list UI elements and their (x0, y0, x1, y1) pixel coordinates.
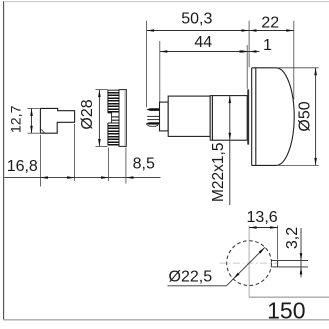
title block line (249, 296, 329, 298)
ext 22 left / 50,3 right (248, 21, 250, 67)
nut notch (107, 113, 112, 123)
dim 12,7 extension top (28, 107, 40, 109)
dim 12,7 line (31, 108, 33, 133)
frame top border (4, 1, 329, 3)
washer (210, 96, 212, 141)
svg-text:44: 44 (194, 34, 212, 51)
dim line 44 (160, 51, 249, 53)
bracket outline (40, 108, 74, 133)
bracket inner diagonal (41, 129, 45, 133)
ext 50,3 left (146, 21, 148, 108)
lamp block (168, 96, 210, 136)
Ø22,5 arrow upper (259, 247, 265, 253)
svg-text:1: 1 (263, 37, 272, 54)
svg-text:150: 150 (267, 298, 305, 324)
svg-text:Ø22,5: Ø22,5 (169, 269, 213, 286)
Ø22,5 arrow lower (233, 273, 239, 279)
dim 3,2 arrow top outside (300, 253, 303, 261)
Ø22,5 diagonal (226, 247, 265, 285)
notch inner lines (112, 116, 119, 118)
arrow 50,3 right (242, 29, 250, 32)
Ø50 arrow down (314, 158, 317, 166)
Ø50 arrow up (314, 68, 317, 76)
notch right edge (277, 261, 279, 267)
dim 16,8 ext right (74, 124, 76, 181)
Ø50 ext top (278, 67, 319, 69)
dim 13,6 ext right (277, 226, 279, 260)
dim Ø28 ext top (96, 89, 108, 91)
svg-text:8,5: 8,5 (133, 156, 155, 173)
rear neck (160, 102, 169, 131)
svg-text:22: 22 (261, 14, 279, 31)
dim 3,2 line (300, 228, 302, 277)
dim 16,8 + 8,5 shared line (4, 177, 160, 179)
nut collar (119, 90, 126, 147)
Ø50 ext bottom (278, 164, 319, 166)
frame bottom border (3, 319, 329, 321)
dim Ø28 ext bottom (96, 145, 108, 147)
dim 13,6 arrow left (249, 226, 257, 229)
dim 8,5 arrow left outside (101, 176, 109, 179)
M22 arrow up (229, 96, 232, 104)
svg-text:3,2: 3,2 (284, 227, 301, 249)
dim line 50,3 / 22 (147, 30, 294, 32)
dim 8,5 arrow right outside (126, 176, 133, 179)
arrow 44 right (242, 50, 250, 53)
terminal pins (146, 108, 159, 111)
frame left border (3, 1, 5, 319)
M22 arrow down (229, 133, 232, 141)
knurl body (108, 90, 119, 145)
svg-text:Ø50: Ø50 (297, 101, 314, 131)
dim 8,5 ext left (108, 148, 110, 182)
ext 1 left (246, 45, 248, 89)
hole circle dashed (227, 241, 272, 286)
thread cylinder (212, 96, 247, 141)
svg-text:50,3: 50,3 (181, 11, 212, 28)
dim 12,7 arrow down (30, 126, 33, 134)
head dome (252, 68, 295, 166)
dim line 1 right stub (249, 51, 260, 53)
M22 dim line (229, 96, 231, 205)
dim 8,5 ext right (125, 148, 127, 184)
arrow 22 left (249, 29, 257, 32)
dim 13,6 line (249, 227, 278, 229)
svg-text:16,8: 16,8 (7, 158, 38, 175)
collar shading (124, 90, 126, 146)
svg-text:13,6: 13,6 (247, 209, 278, 226)
arrow 22 right (286, 29, 294, 32)
head back line (251, 68, 253, 166)
knurl stripes (108, 92, 119, 146)
head rim line (255, 68, 257, 166)
ext 22 right (293, 21, 295, 100)
dim Ø28 arrow down (98, 139, 101, 147)
Ø50 dim line (315, 68, 317, 166)
svg-text:Ø28: Ø28 (79, 99, 96, 129)
ext 44 left (159, 41, 161, 102)
notch bottom edge / 3,2 ext bottom (271, 266, 308, 268)
dim Ø28 arrow up (98, 90, 101, 98)
horizontal centerline (220, 262, 278, 264)
arrow 1 left outside (240, 50, 248, 53)
notch top edge / 3,2 ext top (271, 260, 308, 262)
Ø22,5 leader horizontal (168, 285, 227, 287)
arrow 1 right outside (249, 50, 257, 53)
dim 16,8 ext left (39, 135, 41, 187)
arrow 44 left (160, 50, 168, 53)
arrow 50,3 left (147, 29, 155, 32)
terminal hook (146, 124, 158, 126)
dim 12,7 extension bottom (28, 132, 40, 134)
dim 16,8 arrow left (40, 176, 48, 179)
dim 3,2 arrow bottom outside (300, 267, 303, 275)
dim Ø28 line (98, 90, 100, 147)
dim 12,7 arrow up (30, 108, 33, 116)
dim 16,8 arrow right (67, 176, 75, 179)
svg-text:12,7: 12,7 (9, 105, 25, 133)
front flange (247, 89, 249, 144)
dim 13,6 arrow right (270, 226, 278, 229)
svg-text:M22x1,5: M22x1,5 (210, 143, 227, 202)
vertical centerline (248, 226, 250, 297)
